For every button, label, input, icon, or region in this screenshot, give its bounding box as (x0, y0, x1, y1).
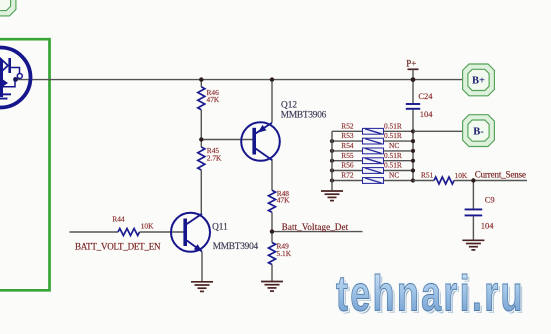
svg-text:47K: 47K (207, 95, 220, 104)
svg-text:R55: R55 (341, 151, 354, 160)
svg-text:Q11: Q11 (212, 222, 228, 232)
svg-text:C24: C24 (418, 91, 433, 101)
svg-text:0.51R: 0.51R (384, 131, 402, 140)
svg-text:0.51R: 0.51R (384, 151, 402, 160)
svg-text:Current_Sense: Current_Sense (475, 170, 526, 180)
svg-text:NC: NC (389, 141, 399, 150)
svg-text:tehnari.ru: tehnari.ru (336, 267, 522, 322)
svg-text:R72: R72 (341, 171, 354, 180)
svg-text:P+: P+ (406, 59, 416, 69)
svg-text:Q12: Q12 (281, 100, 297, 110)
svg-text:B+: B+ (472, 76, 485, 87)
svg-text:R52: R52 (341, 121, 354, 130)
svg-text:R51: R51 (421, 171, 434, 180)
svg-text:47K: 47K (277, 196, 290, 205)
svg-text:BATT_VOLT_DET_EN: BATT_VOLT_DET_EN (75, 242, 161, 252)
svg-text:R54: R54 (341, 141, 354, 150)
svg-text:MMBT3906: MMBT3906 (281, 111, 327, 121)
svg-text:10K: 10K (455, 171, 468, 180)
svg-text:R44: R44 (112, 215, 125, 224)
svg-text:R56: R56 (341, 161, 354, 170)
svg-text:C9: C9 (485, 195, 495, 205)
svg-text:104: 104 (481, 221, 495, 231)
svg-text:MMBT3904: MMBT3904 (213, 242, 259, 252)
svg-text:2.7K: 2.7K (207, 153, 222, 162)
svg-text:B-: B- (473, 126, 484, 137)
svg-text:104: 104 (420, 109, 434, 119)
svg-text:5.1K: 5.1K (277, 249, 292, 258)
svg-text:0.51R: 0.51R (384, 121, 402, 130)
svg-text:R53: R53 (341, 131, 354, 140)
svg-text:10K: 10K (141, 222, 154, 231)
svg-text:Batt_Voltage_Det: Batt_Voltage_Det (282, 222, 349, 232)
svg-text:0.51R: 0.51R (384, 161, 402, 170)
svg-text:NC: NC (389, 171, 399, 180)
